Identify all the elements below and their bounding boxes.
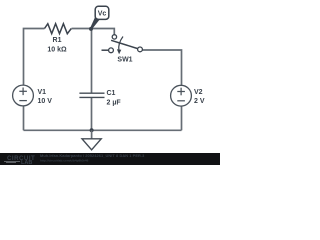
switch SW1 — [102, 35, 143, 64]
node junction dot at ground — [90, 128, 94, 132]
svg-text:2 V: 2 V — [194, 98, 205, 105]
voltage source V1 — [13, 85, 34, 106]
svg-text:2 µF: 2 µF — [107, 99, 122, 106]
wire top-left: left rail top corner to resistor — [24, 29, 45, 86]
right throw circle — [138, 47, 143, 52]
svg-text:R1: R1 — [53, 37, 62, 44]
svg-text:Vc: Vc — [98, 11, 107, 18]
wire left rail bottom — [23, 106, 25, 130]
node Vc label box — [90, 6, 109, 29]
common terminal circle — [112, 35, 116, 39]
left throw stub — [102, 49, 109, 51]
svg-text:Muh.Irfan.Kadarpanto / 2052426: Muh.Irfan.Kadarpanto / 20524261_UNIT 8 D… — [40, 153, 145, 158]
wire resistor to junction to switch corner — [72, 29, 115, 35]
capacitor C1 — [79, 93, 104, 97]
wire capacitor top — [91, 29, 93, 93]
resistor R1 — [45, 24, 72, 34]
wire bottom rail — [24, 129, 182, 131]
left throw circle — [109, 48, 114, 53]
svg-text:http;//circuitlab.com/c/b4p8k5: http;//circuitlab.com/c/b4p8k5r46 — [40, 159, 89, 163]
svg-text:10 V: 10 V — [38, 98, 53, 105]
voltage source V2 — [171, 85, 192, 106]
ground — [82, 130, 101, 150]
wire capacitor bottom — [91, 98, 93, 130]
node junction dot at Vc — [89, 27, 93, 31]
svg-text:10 kΩ: 10 kΩ — [47, 46, 67, 53]
wire right rail bottom — [181, 106, 183, 130]
actuator arrow — [119, 37, 123, 51]
svg-text:LAB: LAB — [21, 160, 32, 165]
wire switch to V2 right rail — [142, 50, 181, 85]
svg-text:C1: C1 — [107, 90, 116, 97]
arm — [111, 40, 138, 48]
svg-text:SW1: SW1 — [117, 57, 132, 64]
watermark bar — [0, 153, 220, 166]
svg-text:V1: V1 — [38, 89, 47, 96]
svg-text:V2: V2 — [194, 89, 203, 96]
